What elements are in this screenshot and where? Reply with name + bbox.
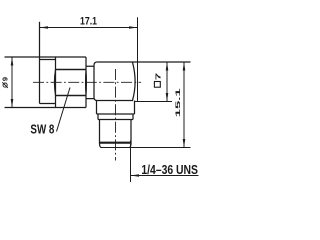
thread chamfer line [100, 142, 132, 144]
dimension dia9 line [11, 57, 13, 108]
label dia 9 rotated [1, 77, 10, 88]
threaded section 1/4-36 UNS sides [100, 120, 132, 145]
flange bottom edge [97, 113, 135, 115]
dimension square7 line [166, 62, 168, 102]
leader line for 1/4-36 UNS [131, 175, 199, 177]
hex flat edge top [56, 69, 87, 71]
centerline vertical axis [115, 69, 117, 161]
body right end cap arc [133, 62, 136, 100]
coupling nut nose rim top and bottom [40, 60, 56, 104]
thread right face extension line downward [130, 141, 132, 183]
svg-text:SW 8: SW 8 [30, 121, 54, 136]
ring section sides [98, 114, 133, 120]
svg-text:17.1: 17.1 [80, 16, 97, 28]
centerline horizontal axis [33, 81, 141, 83]
body bottom edge [97, 100, 133, 102]
svg-text:9: 9 [1, 77, 10, 81]
svg-text:1/4–36 UNS: 1/4–36 UNS [141, 163, 198, 177]
hex nut right face [85, 57, 87, 108]
dimension 17.1 arrow left [40, 26, 49, 29]
ring bottom edge [98, 119, 133, 121]
dimension 17.1 line [40, 27, 138, 29]
SW 8 leader line [57, 88, 71, 132]
hex nut chamfer arcs on right face [85, 70, 86, 96]
svg-text:15.1: 15.1 [175, 88, 182, 117]
hex flat edge bottom [56, 95, 87, 97]
right-angle body left face with rounded corners [94, 62, 97, 101]
hex nut bottom outline merged with dia9 extension line [5, 107, 87, 109]
square7 bottom extension line [135, 101, 173, 103]
bottom edge merged with 15.1 extension line [101, 147, 191, 149]
body top edge extended right as extension line [97, 61, 190, 63]
svg-text:7: 7 [153, 73, 162, 80]
dimension 17.1 extension line right [137, 17, 139, 101]
hex nut chamfer arc on left face [54, 70, 55, 96]
label square 7 rotated [153, 73, 162, 87]
leader arrow pointing left [131, 174, 140, 177]
hex nut left face [55, 57, 57, 108]
dimension 15.1 line [183, 62, 185, 148]
hex nut top outline merged with dia9 extension line [5, 56, 87, 58]
dimension 17.1 arrow right [129, 26, 138, 29]
flange section below body [97, 101, 135, 115]
dimension 17.1 extension line left / interface plane of connector [39, 22, 41, 104]
thread end taper left and right [100, 144, 132, 148]
neck between nut and body [86, 66, 94, 98]
